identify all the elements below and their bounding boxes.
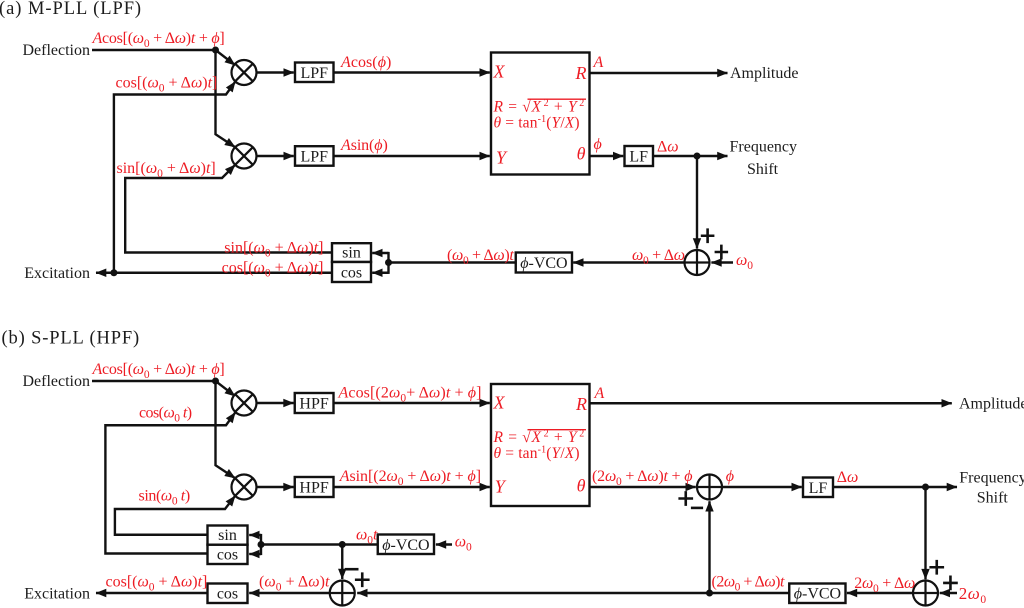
svg-text:θ: θ — [577, 475, 586, 495]
wire bracket vertical (b) — [260, 534, 262, 555]
wire theta output to phase adder (b) — [590, 486, 696, 488]
svg-text:R = √X2 + Y2: R = √X2 + Y2 — [493, 98, 585, 116]
svg-text:ϕ: ϕ — [594, 136, 602, 153]
junction rail branch (b) — [706, 590, 713, 597]
svg-text:(a) M-PLL (LPF): (a) M-PLL (LPF) — [0, 0, 142, 19]
svg-text:Asin[(2ω0 + Δω)t + ϕ]: Asin[(2ω0 + Δω)t + ϕ] — [339, 468, 481, 488]
junction deflection branch (a) — [212, 47, 219, 54]
wire branch to multiplier M1a — [216, 50, 236, 65]
plus sign right of adder (a) — [715, 245, 729, 260]
block LF (b) — [803, 478, 833, 498]
svg-text:Acos[(2ω0+ Δω)t + ϕ]: Acos[(2ω0+ Δω)t + ϕ] — [338, 384, 482, 404]
junction deflection branch (b) — [212, 378, 219, 385]
wire bracket arrow into sin box (a) — [372, 252, 388, 254]
junction frequency branch (b) — [922, 484, 929, 491]
wire adder B2 to phi-VCO2 (b) — [847, 592, 913, 594]
svg-text:Excitation: Excitation — [24, 265, 90, 282]
svg-text:cos(ω0 t): cos(ω0 t) — [139, 405, 192, 425]
svg-text:ω0 + Δω: ω0 + Δω — [632, 247, 685, 267]
block cos (b) — [208, 545, 248, 564]
wire excitation adder to cos block (b) — [249, 592, 330, 594]
svg-text:X: X — [493, 61, 506, 81]
wire LF to Frequency Shift (b) — [833, 486, 957, 488]
wire branch down to multiplier M2b — [216, 381, 236, 478]
junction frequency branch (a) — [694, 153, 701, 160]
block XY phase detector box (a) — [491, 53, 590, 175]
overline radical (b) — [528, 429, 587, 431]
svg-text:Δω: Δω — [657, 138, 679, 155]
adder phase (b) — [697, 475, 722, 500]
svg-text:Asin(ϕ): Asin(ϕ) — [340, 137, 388, 154]
wire phase adder to LF (b) — [722, 486, 802, 488]
wire LPF2 to XY box (a) — [334, 155, 490, 157]
svg-text:2ω0: 2ω0 — [959, 584, 987, 606]
svg-text:HPF: HPF — [299, 396, 328, 413]
svg-text:HPF: HPF — [299, 480, 328, 497]
svg-text:ϕ-VCO: ϕ-VCO — [520, 255, 567, 272]
block HPF2 (b) — [295, 477, 334, 497]
svg-text:ω0: ω0 — [736, 252, 753, 272]
block LPF2 (a) — [295, 146, 334, 166]
svg-text:cos: cos — [217, 546, 238, 563]
block HPF1 (b) — [295, 393, 334, 413]
wire cos feedback to Excitation and M1a — [96, 272, 332, 274]
wire branch to multiplier M1b — [216, 381, 236, 396]
svg-text:θ: θ — [577, 143, 586, 163]
svg-text:A: A — [593, 54, 604, 71]
svg-text:(ω0 + Δω)t: (ω0 + Δω)t — [447, 247, 514, 267]
svg-text:cos: cos — [341, 264, 362, 281]
svg-text:Amplitude: Amplitude — [959, 396, 1024, 413]
wire frequency branch down to adder (a) — [696, 156, 698, 249]
adder B2 (b) — [913, 581, 938, 606]
block sin (b) — [208, 526, 248, 545]
svg-text:(2ω0 + Δω)t: (2ω0 + Δω)t — [712, 573, 785, 593]
svg-text:Shift: Shift — [977, 489, 1009, 506]
svg-text:LPF: LPF — [300, 65, 328, 82]
svg-text:Frequency: Frequency — [959, 469, 1024, 486]
svg-text:(b) S-PLL (HPF): (b) S-PLL (HPF) — [2, 329, 140, 349]
adder excitation (b) — [330, 581, 355, 606]
junction w0t branch (b) — [339, 541, 346, 548]
wire HPF1 to XY box (b) — [334, 402, 490, 404]
plus sign right of adder B2 (b) — [943, 576, 958, 591]
wire bracket arrow into cos box (a) — [372, 272, 388, 274]
svg-text:Δω: Δω — [837, 469, 859, 486]
junction bracket (b) — [258, 541, 265, 548]
wire w0t branch down to excitation adder (b) — [341, 545, 343, 580]
svg-text:(2ω0 + Δω)t + ϕ: (2ω0 + Δω)t + ϕ — [592, 468, 692, 488]
svg-text:Acos[(ω0 + Δω)t + ϕ]: Acos[(ω0 + Δω)t + ϕ] — [92, 361, 225, 381]
wire phi-VCO output to sin cos bracket (a) — [389, 261, 516, 263]
wire 2w0 input to adder B2 — [940, 592, 957, 594]
wire adder to phi-VCO (a) — [573, 261, 684, 263]
block LPF1 (a) — [295, 63, 334, 83]
plus sign right of excitation adder (b) — [355, 572, 370, 587]
svg-text:sin[(ω0 + Δω)t]: sin[(ω0 + Δω)t] — [117, 160, 216, 180]
svg-text:ϕ: ϕ — [726, 468, 734, 485]
svg-text:ϕ-VCO: ϕ-VCO — [382, 537, 429, 554]
wire bracket arrow into cos box (b) — [249, 553, 261, 555]
svg-text:R: R — [575, 63, 587, 83]
svg-text:Shift: Shift — [747, 161, 779, 178]
wire sin feed to M2a — [125, 165, 332, 253]
junction bracket (a) — [385, 259, 392, 266]
wire omega0 input to adder (a) — [711, 261, 733, 263]
svg-text:(ω0 + Δω)t: (ω0 + Δω)t — [259, 573, 330, 593]
block phi-VCO (a) — [516, 253, 572, 273]
block phi-VCO1 (b) — [378, 535, 434, 555]
plus sign top of adder B2 (b) — [929, 560, 944, 575]
wire sin(w0t) feed to M2b — [115, 496, 235, 535]
overline radical (a) — [528, 98, 587, 100]
svg-text:LF: LF — [809, 480, 828, 497]
multiplier M2b — [232, 475, 257, 500]
junction excitation (a) — [110, 269, 117, 276]
wire R output to Amplitude (a) — [590, 72, 728, 74]
wire cos block to Excitation (b) — [96, 592, 208, 594]
svg-text:R: R — [575, 394, 587, 414]
wire frequency branch down to adder B2 — [924, 487, 926, 579]
block phi-VCO2 (b) — [789, 584, 845, 604]
svg-text:sin[(ω0 + Δω)t]: sin[(ω0 + Δω)t] — [224, 240, 323, 260]
svg-text:LPF: LPF — [300, 149, 328, 166]
svg-text:Deflection: Deflection — [22, 42, 90, 59]
multiplier M2a — [232, 144, 257, 169]
svg-text:Deflection: Deflection — [22, 373, 90, 390]
block cos output (b) — [208, 584, 248, 604]
svg-text:A: A — [594, 385, 605, 402]
wire R output to Amplitude (b) — [590, 402, 952, 404]
wire cos feed branch up to M1a — [114, 82, 235, 273]
wire theta output to LF (a) — [590, 155, 624, 157]
multiplier M1b — [232, 391, 257, 416]
svg-text:cos: cos — [217, 585, 238, 602]
wire w0 input to phi-VCO1 (b) — [436, 543, 452, 545]
svg-text:Excitation: Excitation — [24, 585, 90, 602]
svg-text:cos[(ω0 + Δω)t]: cos[(ω0 + Δω)t] — [222, 259, 324, 279]
svg-text:Acos[(ω0 + Δω)t + ϕ]: Acos[(ω0 + Δω)t + ϕ] — [92, 30, 225, 50]
wire M2a to LPF2 — [257, 155, 294, 157]
wire bracket arrow into sin box (b) — [249, 534, 261, 536]
block LF (a) — [625, 146, 654, 166]
plus sign top of adder (a) — [701, 228, 715, 243]
svg-text:Acos(ϕ): Acos(ϕ) — [340, 54, 391, 71]
minus sign below phase adder (b) — [691, 507, 703, 510]
wire M2b to HPF2 — [257, 486, 294, 488]
multiplier M1a — [232, 60, 257, 85]
svg-text:LF: LF — [629, 149, 648, 166]
wire HPF2 to XY box (b) — [334, 486, 490, 488]
block cos (a) — [332, 262, 371, 282]
minus sign above excitation adder (b) — [345, 568, 359, 571]
plus sign left of phase adder (b) — [678, 491, 693, 506]
wire rail branch up to phase adder (b) — [708, 501, 710, 593]
svg-text:θ = tan-1(Y/X): θ = tan-1(Y/X) — [494, 114, 580, 132]
svg-text:sin: sin — [218, 527, 237, 544]
wire phi-VCO1 output to bracket (b) — [261, 543, 378, 545]
wire cos(w0t) feed to M1b — [105, 412, 235, 553]
svg-text:Frequency: Frequency — [730, 139, 798, 156]
svg-text:sin(ω0 t): sin(ω0 t) — [139, 488, 190, 508]
block XY phase detector box (b) — [491, 384, 590, 506]
wire M1b to HPF1 — [257, 402, 294, 404]
svg-text:Amplitude: Amplitude — [730, 65, 798, 82]
adder circle (a) — [685, 250, 710, 275]
wire phi-VCO2 output rail to excitation adder (b) — [357, 592, 789, 594]
svg-text:ϕ-VCO: ϕ-VCO — [794, 586, 841, 603]
svg-text:cos[(ω0 + Δω)t]: cos[(ω0 + Δω)t] — [106, 573, 208, 593]
wire deflection input (a) — [92, 49, 216, 51]
svg-text:ω0: ω0 — [455, 534, 472, 554]
svg-text:sin: sin — [342, 244, 361, 261]
wire LF to Frequency Shift (a) — [653, 155, 728, 157]
wire deflection input (b) — [92, 380, 216, 382]
svg-text:X: X — [493, 392, 506, 412]
svg-text:R = √X2 + Y2: R = √X2 + Y2 — [493, 428, 585, 446]
svg-text:θ = tan-1(Y/X): θ = tan-1(Y/X) — [494, 445, 580, 463]
wire LPF1 to XY box (a) — [334, 71, 490, 73]
block sin (a) — [332, 243, 371, 262]
wire bracket vertical (a) — [387, 252, 389, 274]
svg-text:cos[(ω0 + Δω)t]: cos[(ω0 + Δω)t] — [116, 75, 218, 95]
wire branch down to multiplier M2a — [216, 50, 236, 147]
wire M1a to LPF1 — [257, 71, 294, 73]
